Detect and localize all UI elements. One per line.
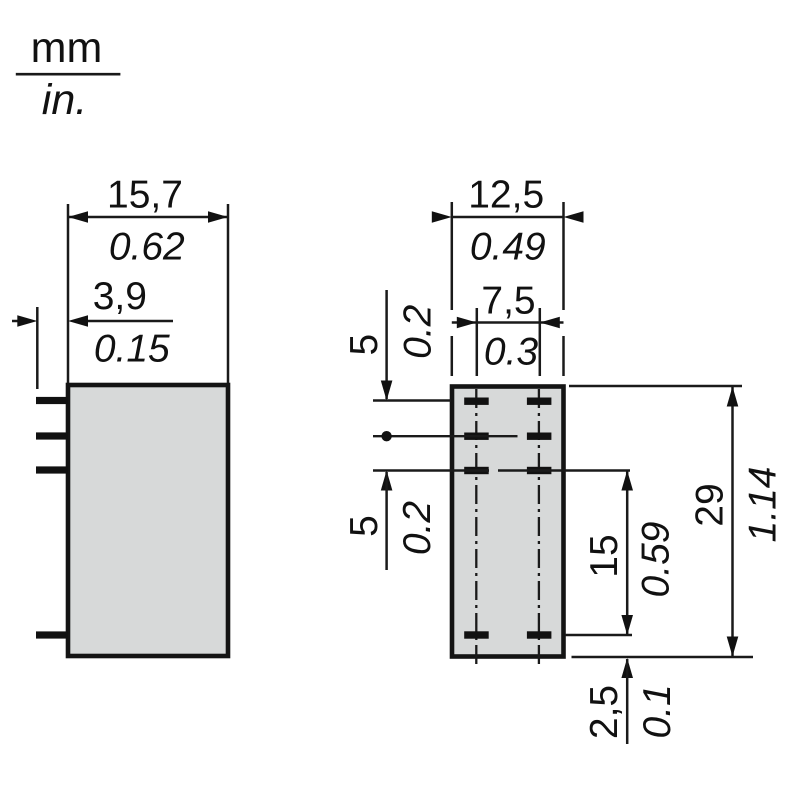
- svg-text:2,5: 2,5: [583, 685, 626, 739]
- svg-text:0.62: 0.62: [109, 226, 185, 269]
- dimension 12,5 extension line right: [562, 202, 565, 310]
- dimension 7,5 line: [452, 321, 564, 324]
- svg-text:5: 5: [343, 515, 386, 537]
- dimension 5 shared dot: [381, 431, 391, 441]
- dimension 3,9 left tail: [12, 320, 18, 323]
- right view pin row3 right: [527, 467, 552, 474]
- dimension 29 line: [731, 387, 734, 657]
- svg-text:29: 29: [689, 483, 732, 526]
- dimension 5 upper line: [385, 290, 388, 399]
- svg-text:in.: in.: [42, 76, 87, 124]
- dimension 2,5 line: [626, 659, 629, 744]
- dimension 12,5 arrow right (outside, pointing left): [564, 211, 584, 223]
- dimension 7,5 arrow left (inside, pointing left): [457, 317, 477, 329]
- left view pin 4: [36, 631, 68, 638]
- dimension 5 lower arrow (pointing up): [381, 471, 393, 491]
- row3 extension line: [373, 469, 489, 471]
- svg-text:5: 5: [343, 334, 386, 356]
- dimension 7,5 extension line left: [476, 308, 479, 376]
- dimension 15 line: [626, 471, 629, 636]
- svg-text:3,9: 3,9: [93, 275, 147, 318]
- dimension 15,7 arrow right: [208, 211, 228, 223]
- dimension 3,9 extension line (pin tip): [36, 307, 39, 389]
- row4 extension line: [565, 634, 632, 636]
- dimension 15,7 extension line left: [67, 204, 70, 383]
- row2 extension line: [373, 435, 518, 437]
- right view centerline right column (dash-dot): [538, 389, 540, 668]
- left view pin 3: [36, 466, 68, 473]
- body top extension line (for 29): [569, 385, 742, 387]
- dimension 5 upper arrow (pointing down): [381, 381, 393, 401]
- dimension 12,5 extension line left: [451, 202, 454, 310]
- svg-text:15: 15: [583, 534, 626, 577]
- right view body: [452, 387, 564, 657]
- body bottom extension line (for 29 and 2,5): [572, 656, 754, 658]
- dimension 5 lower line: [385, 472, 388, 570]
- dimension 15 arrow top (pointing up): [621, 471, 633, 491]
- svg-text:0.1: 0.1: [636, 684, 679, 738]
- dimension 3,9 right tail / fraction bar: [88, 320, 173, 323]
- dimension 15,7 arrow left: [68, 211, 88, 223]
- svg-text:12,5: 12,5: [468, 174, 544, 217]
- right view pin row2 right: [527, 433, 552, 440]
- left view pin 1: [36, 397, 68, 404]
- right view centerline left column (dash-dot): [475, 389, 477, 668]
- svg-text:0.2: 0.2: [397, 304, 440, 359]
- dimension 7,5 arrow right (inside, pointing right): [540, 317, 560, 329]
- left view body: [68, 385, 228, 656]
- dimension 2,5 arrow (pointing up at body bottom line): [621, 658, 633, 678]
- dimension 15 arrow bottom (pointing down): [621, 615, 633, 635]
- svg-text:0.49: 0.49: [470, 226, 546, 269]
- right view pin row4 right: [527, 631, 552, 638]
- right view pin row4 left: [464, 631, 489, 638]
- right view pin row2 left: [464, 433, 489, 440]
- svg-text:0.2: 0.2: [396, 501, 439, 556]
- dimension 12,5 line: [452, 216, 564, 219]
- dimension 12,5 arrow left (outside, pointing right): [432, 211, 452, 223]
- svg-text:1.14: 1.14: [742, 467, 785, 543]
- svg-text:mm: mm: [31, 24, 103, 72]
- svg-text:0.59: 0.59: [635, 522, 678, 598]
- legend fraction bar: [16, 73, 121, 76]
- right view pin row3 left: [464, 467, 489, 474]
- svg-text:15,7: 15,7: [107, 174, 183, 217]
- row1 extension line: [373, 399, 451, 401]
- dimension 7,5 extension line right: [539, 308, 542, 376]
- dimension 3,9 arrow right (outside, pointing left): [68, 315, 88, 327]
- svg-text:7,5: 7,5: [481, 280, 535, 323]
- dimension 15,7 line: [68, 216, 228, 219]
- svg-text:0.15: 0.15: [94, 328, 170, 371]
- right view pin row1 left: [464, 398, 489, 405]
- dimension 29 arrow top (pointing up): [727, 387, 739, 407]
- svg-text:0.3: 0.3: [484, 331, 539, 374]
- left view pin 2: [36, 432, 68, 439]
- dimension 3,9 arrow left (outside, pointing right): [17, 315, 37, 327]
- right view pin row1 right: [527, 398, 552, 405]
- dimension 15,7 extension line right: [227, 204, 230, 383]
- dimension 29 arrow bottom (pointing down): [727, 637, 739, 657]
